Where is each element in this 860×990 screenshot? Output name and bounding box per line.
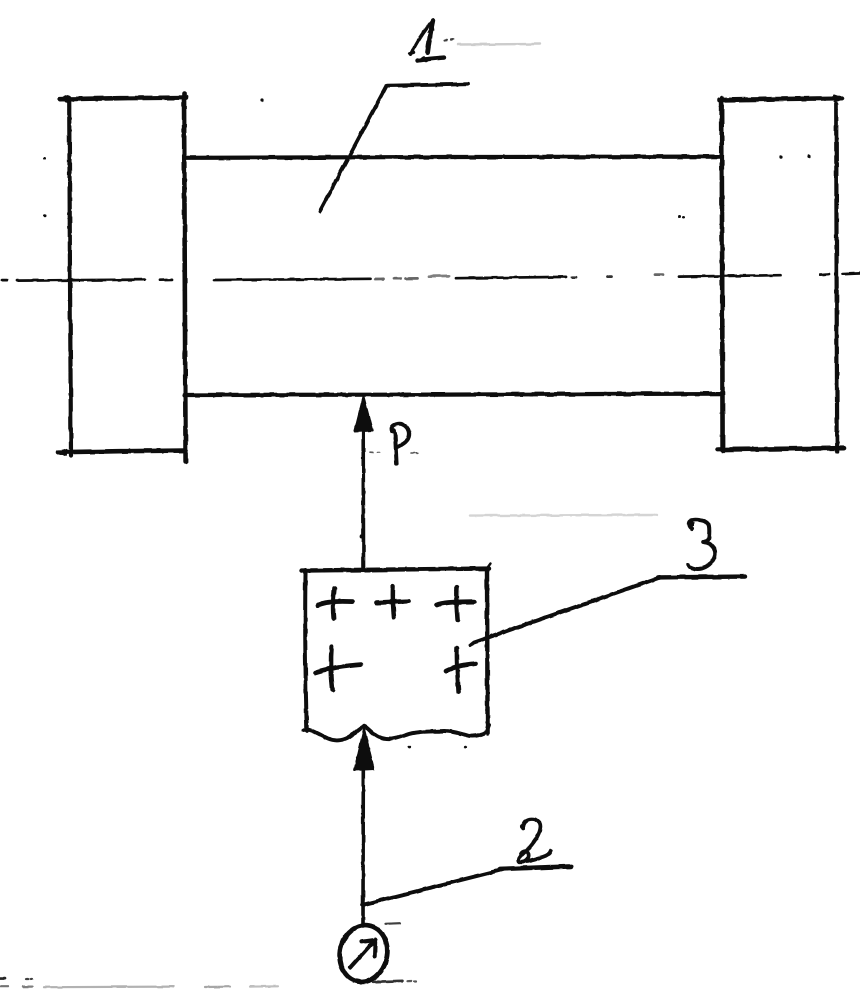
plus mark row1 a <box>318 601 353 605</box>
right flange: top-right arrow tick <box>834 95 843 102</box>
left flange: top-left tick <box>59 96 68 102</box>
left flange: bottom edge <box>58 451 186 453</box>
plus mark row1 c <box>437 602 475 605</box>
right flange: bottom edge <box>718 448 844 449</box>
gauge needle arrowhead <box>362 940 376 957</box>
label P <box>395 434 397 464</box>
left flange: top edge <box>60 98 186 100</box>
label 1 numeral <box>411 21 433 55</box>
right flange: top edge <box>719 98 842 100</box>
plus mark row1 b <box>377 601 409 602</box>
box 3: wavy torn bottom edge <box>304 725 490 740</box>
force arrow P shaft <box>361 430 365 570</box>
roller body 1: bottom generator line <box>184 394 721 395</box>
box 3: left edge <box>305 570 307 731</box>
right flange: right edge <box>836 104 837 452</box>
left flange: right edge <box>184 94 186 463</box>
supply arrow shaft <box>361 770 365 926</box>
gauge needle <box>350 941 374 968</box>
box 3: top-right tick <box>487 564 491 570</box>
label 2 numeral <box>519 819 541 862</box>
box 3: right edge <box>485 570 490 733</box>
leader line for label 3 <box>470 578 660 646</box>
plus mark row2 b <box>446 664 476 671</box>
force arrow P head <box>355 397 372 432</box>
left flange: bottom-left tick <box>58 449 67 454</box>
gauge 2 body (ellipse) <box>334 921 392 987</box>
junction blob on leader 2 <box>361 902 366 907</box>
label 3 numeral <box>688 520 715 569</box>
left flange: left edge <box>69 98 71 457</box>
faint scan marks <box>444 40 453 41</box>
right flange: left edge <box>722 98 723 451</box>
supply arrow head <box>355 729 374 770</box>
faint dashes beside P <box>370 452 418 453</box>
box 3: top edge <box>302 569 490 571</box>
roller body 1: top generator line <box>185 157 721 158</box>
small blob on shaft <box>360 534 364 538</box>
leader line for label 2 <box>363 869 506 905</box>
plus mark row2 a <box>315 665 361 673</box>
axis centerline (dash-dot) <box>2 273 860 281</box>
label 1 underline <box>418 58 445 61</box>
leader line for label 1 <box>320 84 468 211</box>
